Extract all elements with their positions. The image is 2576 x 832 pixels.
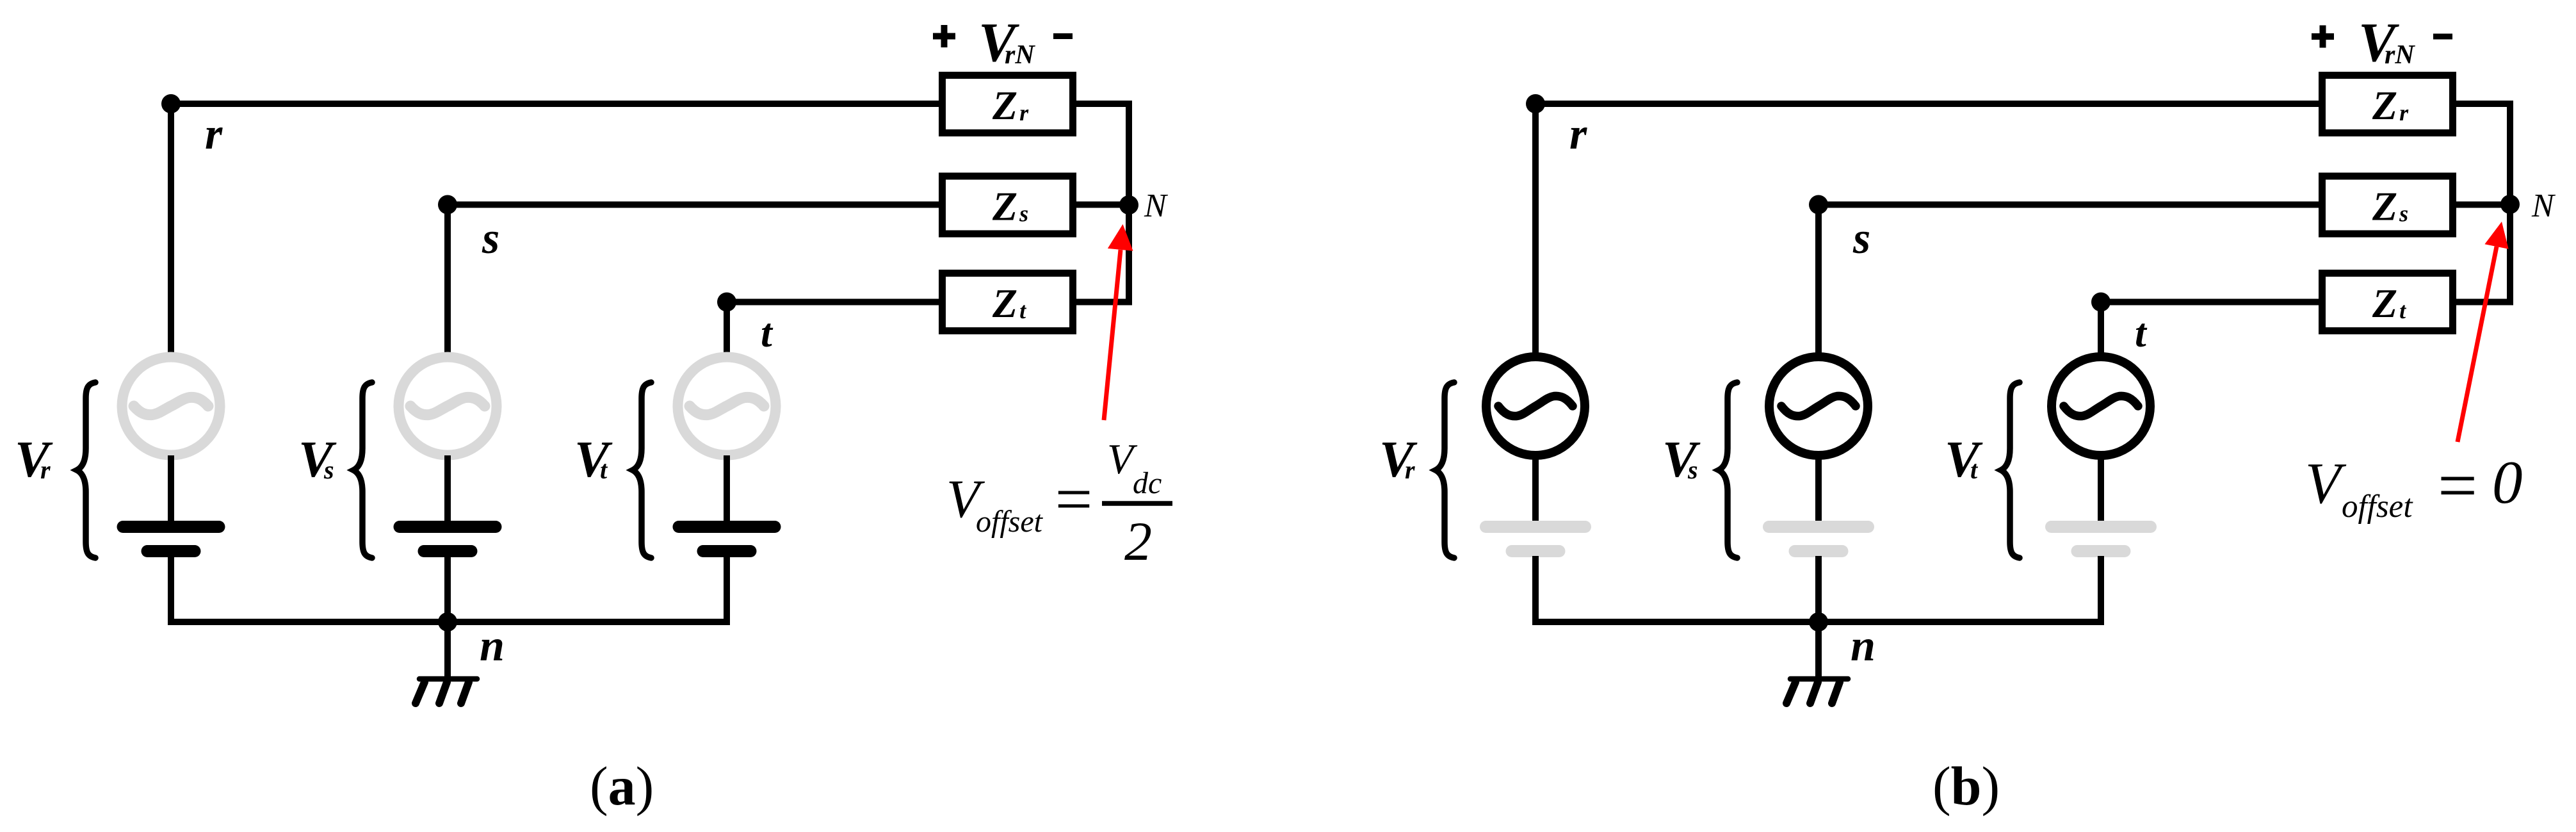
impedance Zr box (a) [943, 76, 1073, 133]
wire: Vs circle to battery (a) [444, 455, 451, 524]
impedance Zt box (b) [2322, 273, 2453, 331]
wire: phase t horizontal from node t to Zt (b) [2101, 299, 2322, 306]
ground symbol (b) [1786, 679, 1848, 703]
node n (b) [1809, 612, 1828, 632]
wire: Vs circle to battery (b) [1815, 455, 1822, 524]
battery Vt long plate (b) [2052, 521, 2151, 533]
wire: bottom bus (b) [1532, 619, 2104, 625]
wire: Vt circle to battery (b) [2098, 455, 2104, 524]
AC source Vr circle (a) [122, 357, 220, 455]
battery Vs short plate (a) [424, 545, 471, 557]
node t (b) [2091, 293, 2110, 312]
AC source Vs circle (a) [399, 357, 497, 455]
wire: Vr battery to bus (a) [168, 555, 174, 625]
wire: node n to ground (a) [444, 622, 451, 679]
wire: Vs battery to bus node n (b) [1815, 556, 1822, 625]
brace of Vr (a) [77, 382, 95, 558]
svg-text:n: n [480, 621, 505, 671]
wire: node N vertical bus (b) [2507, 101, 2513, 305]
svg-text:n: n [1851, 621, 1875, 671]
battery Vs long plate (b) [1769, 521, 1868, 533]
svg-text:s: s [482, 214, 499, 263]
AC source Vt circle (a) [678, 357, 776, 455]
impedance Zs box (b) [2322, 176, 2453, 234]
svg-text:Vt: Vt [1945, 430, 1983, 488]
wire: Vt battery to bus (a) [724, 555, 730, 625]
wire: Zs output to node N (b) [2454, 202, 2510, 208]
formula Voffset = 0 (b) [2305, 446, 2523, 525]
brace of Vs (b) [1719, 382, 1737, 558]
wire: phase s vertical from node s down to source Vs (b) [1815, 201, 1822, 357]
wire: Vr battery to bus (b) [1532, 556, 1539, 625]
AC source Vr circle (b) [1486, 357, 1585, 455]
svg-text:0: 0 [2492, 448, 2523, 516]
svg-text:V: V [2305, 451, 2347, 516]
svg-text:N: N [2531, 188, 2556, 224]
svg-text:Vs: Vs [298, 430, 337, 488]
minus sign of VrN (b) [2433, 34, 2452, 40]
wire: phase s horizontal from node s to Zs (a) [448, 202, 942, 208]
battery Vt short plate (b) [2077, 545, 2125, 557]
svg-text:Vr: Vr [15, 430, 53, 488]
wire: node n to ground (b) [1815, 622, 1822, 679]
wire: Vr circle to battery (b) [1532, 455, 1539, 524]
wire: Zr output to node N vertical bus (b) [2454, 101, 2513, 107]
brace of Vt (b) [2001, 382, 2020, 558]
battery Vt short plate (a) [703, 545, 750, 557]
wire: phase t horizontal from node t to Zt (a) [727, 299, 942, 306]
svg-text:=: = [2433, 446, 2481, 525]
node r (a) [161, 94, 181, 113]
node n (a) [438, 612, 457, 632]
minus sign of VrN (a) [1053, 33, 1073, 39]
svg-text:Vs: Vs [1662, 430, 1701, 488]
brace of Vt (a) [633, 382, 651, 558]
svg-text:=: = [1051, 462, 1096, 536]
svg-text:dc: dc [1133, 466, 1162, 500]
svg-text:Vr: Vr [1379, 430, 1418, 488]
svg-text:offset: offset [2342, 489, 2413, 525]
wire: phase r vertical from node r down to source Vr (b) [1532, 101, 1539, 357]
svg-text:t: t [761, 310, 774, 355]
svg-text:r: r [205, 110, 223, 159]
svg-text:2: 2 [1124, 510, 1152, 572]
red arrow pointing to node N (a) [1104, 224, 1133, 420]
sine wave inside Vt (a) [690, 397, 764, 414]
wire: phase r horizontal from node r to Zr (a) [171, 101, 942, 107]
wire: Vr circle to battery (a) [168, 455, 174, 524]
battery Vs long plate (a) [400, 521, 496, 533]
red arrow pointing to node N (b) [2458, 222, 2509, 442]
svg-text:N: N [1144, 188, 1169, 224]
svg-text:Vt: Vt [574, 430, 613, 488]
svg-text:offset: offset [976, 505, 1044, 539]
sine wave inside Vr (a) [134, 397, 208, 414]
node t (a) [717, 293, 736, 312]
battery Vr long plate (b) [1486, 521, 1585, 533]
node N (b) [2500, 195, 2520, 214]
battery Vt long plate (a) [679, 521, 775, 533]
node s (b) [1809, 195, 1828, 215]
svg-text:(a): (a) [590, 755, 654, 817]
svg-text:s: s [1852, 214, 1870, 263]
ground symbol (a) [416, 679, 477, 703]
wire: Vs battery to bus node n (a) [444, 555, 451, 625]
sine wave inside Vt (b) [2064, 396, 2138, 416]
wire: Zs output to node N (a) [1074, 202, 1129, 208]
brace of Vr (b) [1436, 382, 1454, 558]
wire: node N vertical bus (a) [1126, 101, 1132, 305]
node r (b) [1526, 94, 1545, 113]
plus sign of VrN (b) [2312, 26, 2334, 48]
plus sign of VrN (a) [933, 25, 955, 47]
wire: phase s horizontal from node s to Zs (b) [1819, 202, 2322, 208]
battery Vr short plate (a) [147, 545, 195, 557]
AC source Vs circle (b) [1769, 357, 1868, 455]
wire: Zt output to node N bus (a) [1074, 299, 1132, 306]
wire: phase s vertical from node s down to source Vs (a) [444, 201, 451, 357]
wire: bottom bus (a) [168, 619, 730, 625]
sine wave inside Vs (b) [1781, 396, 1856, 416]
wire: phase t vertical from node t down to source Vt (a) [724, 298, 730, 357]
wire: Vt circle to battery (a) [724, 455, 730, 524]
node s (a) [438, 195, 457, 215]
svg-text:(b): (b) [1932, 755, 2000, 817]
battery Vr long plate (a) [123, 521, 219, 533]
wire: Zr output to node N vertical bus (a) [1074, 101, 1132, 107]
formula Voffset = Vdc/2 (a) [946, 436, 1172, 572]
impedance Zr box (b) [2322, 76, 2453, 133]
wire: Zt output to node N bus (b) [2454, 299, 2513, 306]
brace of Vs (a) [353, 382, 372, 558]
wire: Vt battery to bus (b) [2098, 556, 2104, 625]
battery Vr short plate (b) [1512, 545, 1559, 557]
svg-text:t: t [2135, 310, 2148, 355]
node N (a) [1119, 195, 1138, 215]
AC source Vt circle (b) [2052, 357, 2150, 455]
wire: phase r horizontal from node r to Zr (b) [1535, 101, 2322, 107]
impedance Zt box (a) [943, 273, 1073, 331]
sine wave inside Vr (b) [1498, 396, 1573, 416]
impedance Zs box (a) [943, 176, 1073, 234]
wire: phase r vertical from node r down to source Vr (a) [168, 101, 174, 357]
battery Vs short plate (b) [1795, 545, 1842, 557]
svg-text:r: r [1569, 110, 1587, 159]
sine wave inside Vs (a) [410, 397, 485, 414]
wire: phase t vertical from node t down to source Vt (b) [2098, 298, 2104, 357]
